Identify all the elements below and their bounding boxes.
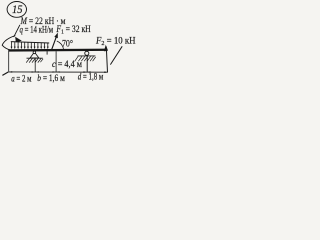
pin support triangle (left support): [30, 52, 39, 58]
force F2 vertical arrow / right extension line: [106, 47, 107, 73]
distributed load arrows: [12, 42, 48, 47]
svg-text:b = 1,6 м: b = 1,6 м: [37, 74, 65, 84]
distributed load q top line: [11, 42, 49, 43]
roller support circle (right support): [85, 51, 89, 55]
svg-text:a = 2 м: a = 2 м: [11, 74, 31, 84]
svg-text:c = 4,4 м: c = 4,4 м: [52, 60, 82, 70]
problem number circle 15: [7, 1, 26, 17]
svg-text:q = 14 кН/м: q = 14 кН/м: [20, 25, 54, 35]
paper background: [0, 0, 150, 98]
leader line from q label: [14, 25, 20, 37]
beam: [8, 49, 107, 52]
force F1 arrowhead: [54, 33, 58, 39]
pin circle: [33, 51, 36, 54]
hatching left support: [26, 58, 43, 62]
force F2 arrowhead: [104, 45, 108, 52]
extension line left end: [8, 51, 10, 72]
svg-text:70°: 70°: [62, 38, 73, 49]
dimension arrowheads: [9, 71, 108, 73]
leader line from F2 label: [110, 46, 122, 64]
force F1 shaft: [52, 35, 58, 50]
svg-text:15: 15: [12, 4, 23, 16]
ground line left support: [27, 57, 43, 59]
extension line at F1: [55, 51, 57, 72]
svg-text:F2 = 10 кН: F2 = 10 кН: [95, 37, 136, 48]
svg-text:F1 = 32 кН: F1 = 32 кН: [56, 25, 91, 36]
extension line below roller support: [86, 56, 88, 72]
extension line below pin support: [34, 58, 36, 72]
angle arc 70 deg: [57, 41, 64, 50]
hatching roller support: [75, 56, 96, 61]
ground line roller support: [78, 55, 96, 57]
svg-text:d = 1,8 м: d = 1,8 м: [78, 72, 104, 82]
moment M arrowhead: [15, 37, 22, 43]
stray mark left of dimension line: [2, 72, 8, 75]
dimension line: [9, 71, 108, 73]
stub below beam at load end: [46, 51, 48, 54]
moment M curved arrow at left end: [2, 36, 15, 51]
